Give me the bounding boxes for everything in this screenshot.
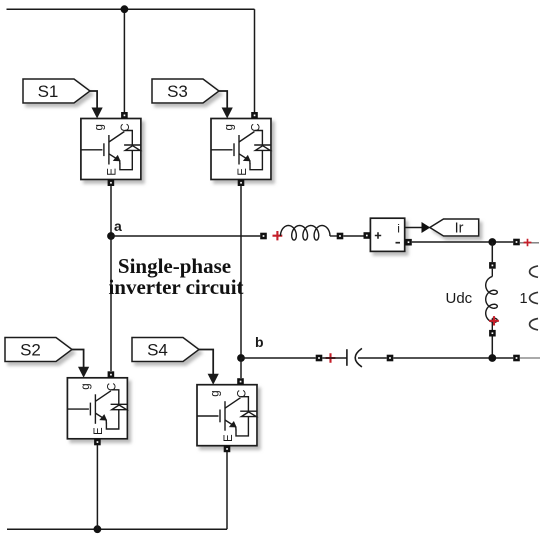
- inductor branch port right: [337, 233, 344, 240]
- wire stub right bottom: [520, 357, 540, 359]
- wire coil to bottom port: [491, 318, 493, 331]
- wire node b to capacitor: [241, 357, 316, 359]
- signal arrowhead: [422, 222, 431, 233]
- current measurement - port: [405, 239, 412, 246]
- node b: [237, 354, 245, 362]
- wire port to coil: [491, 269, 493, 277]
- wire inductor to current measurement: [343, 235, 364, 237]
- wire S1 emitter to node a: [110, 185, 112, 236]
- wire coil to port: [330, 235, 337, 237]
- capacitor branch port right: [387, 355, 394, 362]
- tag S3 (From block): [152, 79, 219, 103]
- tag S1 (From block): [23, 79, 90, 103]
- node junction top: [121, 5, 129, 13]
- node junction bottom: [94, 525, 102, 533]
- minus sign inside: [396, 242, 401, 244]
- wire bottom rail: [7, 528, 227, 530]
- Udc branch top port: [489, 262, 496, 269]
- svg-text:inverter circuit: inverter circuit: [108, 275, 243, 299]
- wire i output to Ir: [405, 227, 422, 229]
- winding arc bottom: [530, 319, 538, 330]
- transistor block S1 (IGBT/Diode): [81, 108, 141, 187]
- wire node a to S2 collector: [110, 236, 112, 371]
- wire tag S2 to gate: [72, 350, 84, 368]
- wire junction to Udc branch: [491, 242, 493, 262]
- Udc branch bottom port: [489, 330, 496, 337]
- node a: [107, 232, 115, 240]
- tag S2 (From block): [5, 338, 72, 362]
- node junction right bottom: [488, 354, 496, 362]
- wire Udc branch to bottom junction: [491, 337, 493, 359]
- inductor branch L (series RLC) port left: [260, 233, 267, 240]
- plus mark capacitor: [326, 353, 336, 362]
- tag Ir (Goto block): [430, 219, 479, 236]
- winding arc top: [530, 266, 538, 277]
- wire top rail: [7, 8, 255, 10]
- svg-text:i: i: [397, 222, 400, 236]
- plus mark Udc: [489, 316, 499, 325]
- svg-text:S3: S3: [167, 82, 188, 101]
- wire top rail to S1 collector: [123, 9, 125, 112]
- node junction right top: [488, 238, 496, 246]
- port right bottom: [513, 355, 520, 362]
- inductor plus mark: [273, 231, 283, 240]
- svg-text:Single-phase: Single-phase: [118, 254, 231, 278]
- wire stub right top: [520, 242, 539, 244]
- svg-text:S2: S2: [20, 341, 41, 360]
- wire node a to inductor: [111, 235, 260, 237]
- wire node b to S4 collector: [240, 358, 242, 378]
- transistor block S2 (IGBT/Diode): [67, 367, 127, 446]
- inductor L coil: [281, 226, 330, 241]
- winding arc middle: [530, 292, 538, 303]
- svg-text:S1: S1: [38, 82, 59, 101]
- port right top: [513, 239, 520, 246]
- wire capacitor to port: [358, 357, 387, 359]
- wire S4 emitter to bottom rail: [226, 452, 228, 530]
- wire current measurement minus to right: [412, 241, 513, 243]
- transistor block S3 (IGBT/Diode): [211, 108, 271, 187]
- transistor block S4 (IGBT/Diode): [197, 374, 257, 453]
- wire port to capacitor: [322, 357, 346, 359]
- wire S3 emitter to node b: [240, 185, 242, 358]
- plus sign inside: [375, 232, 381, 238]
- wire tag S3 to gate: [219, 91, 227, 109]
- svg-text:a: a: [114, 218, 122, 234]
- tag S4 (From block): [132, 338, 199, 362]
- svg-text:S4: S4: [147, 341, 168, 360]
- capacitor curved plate: [355, 348, 362, 367]
- capacitor branch port left: [316, 355, 323, 362]
- svg-text:b: b: [255, 334, 264, 350]
- svg-text:Udc: Udc: [446, 290, 473, 307]
- wire S2 emitter to bottom rail: [96, 445, 98, 530]
- Udc inductor coil (vertical): [486, 277, 498, 323]
- current measurement block: [370, 218, 404, 251]
- wire capacitor to right junction: [393, 357, 513, 359]
- svg-text:1: 1: [520, 291, 528, 307]
- plus mark right top: [524, 239, 532, 247]
- svg-text:Ir: Ir: [455, 221, 464, 237]
- wire tag S1 to gate: [90, 91, 97, 109]
- capacitor plate: [346, 349, 348, 366]
- wire top rail to S3 collector: [254, 9, 256, 112]
- wire tag S4 to gate: [199, 350, 213, 375]
- current measurement + port: [364, 232, 371, 239]
